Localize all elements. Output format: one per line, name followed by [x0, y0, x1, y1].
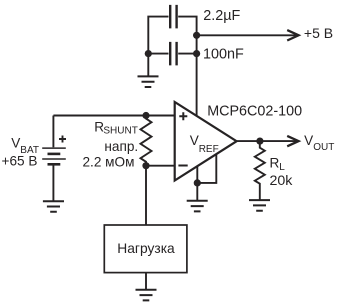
svg-text:+65 В: +65 В [2, 154, 38, 169]
capacitor C1 2.2uF plates [170, 5, 176, 29]
node: supply rail junction [193, 32, 200, 39]
wire: 2.2uF right lead and vertical supply rail down to op-amp [178, 17, 196, 116]
resistor RSHUNT 2.2 mOhm [141, 116, 152, 166]
ground (VREF) [187, 201, 208, 212]
wire: top rail VBAT to +input [53, 115, 174, 117]
node: output junction [256, 138, 263, 145]
wire: minus input rail [146, 165, 175, 167]
node: 100nF left junction [145, 50, 152, 57]
ground (RL) [249, 200, 270, 211]
wire: load to ground [145, 273, 147, 290]
svg-text:REF: REF [199, 144, 219, 155]
svg-text:R: R [270, 155, 280, 170]
svg-text:2.2µF: 2.2µF [203, 8, 240, 24]
svg-text:100nF: 100nF [203, 47, 244, 63]
wire: +5V supply line [197, 34, 296, 36]
battery BT1 [42, 148, 66, 164]
minus sign input [178, 165, 187, 167]
arrowhead VOUT [287, 136, 298, 146]
wire: output line [237, 140, 296, 142]
svg-text:+5 В: +5 В [304, 25, 333, 41]
wire: 2.2uF left lead and left vertical rail down to ground [148, 17, 168, 77]
arrowhead +5V [287, 30, 298, 40]
capacitor C2 100nF plates [170, 42, 176, 66]
svg-text:V: V [11, 135, 20, 150]
svg-text:напр.: напр. [104, 139, 138, 154]
svg-text:2.2 мОм: 2.2 мОм [83, 155, 135, 170]
svg-text:SHUNT: SHUNT [103, 125, 137, 136]
ground (bypass caps) [138, 76, 159, 87]
wire: 100nF left lead [148, 53, 168, 55]
node: VREF junction [194, 179, 201, 186]
ground (battery) [43, 201, 64, 212]
wire: battery negative lead [52, 165, 54, 201]
node: 100nF right junction [193, 50, 200, 57]
wire: battery positive lead [52, 116, 54, 148]
svg-text:OUT: OUT [313, 142, 334, 153]
svg-text:20k: 20k [270, 173, 294, 189]
load box [104, 225, 187, 273]
battery plus sign [59, 136, 66, 143]
svg-text:MCP6C02-100: MCP6C02-100 [207, 104, 302, 120]
wire: down to load [145, 166, 147, 225]
wire: 100nF right lead [178, 53, 196, 55]
wire: VREF to ground [196, 183, 198, 201]
svg-text:V: V [190, 133, 199, 148]
svg-text:Нагрузка: Нагрузка [117, 241, 175, 256]
plus sign input [179, 112, 187, 120]
svg-text:V: V [304, 133, 313, 148]
ground (load) [136, 290, 157, 301]
svg-text:L: L [279, 162, 285, 173]
wire: VREF pin 1 [196, 166, 198, 183]
wire: VREF pin 2 [197, 154, 216, 183]
node: RSHUNT bottom junction [142, 162, 149, 169]
op-amp U1 MCP6C02 triangle [175, 102, 237, 181]
resistor RL 20k [255, 141, 265, 200]
node: RSHUNT top junction [142, 112, 149, 119]
